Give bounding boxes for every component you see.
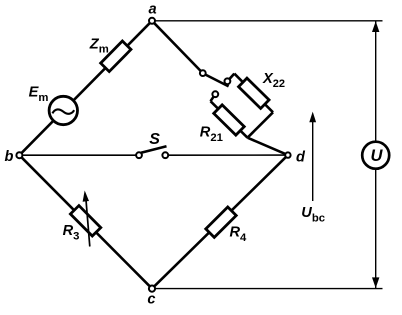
svg-text:U: U: [370, 147, 383, 165]
svg-text:b: b: [4, 149, 13, 165]
svg-text:a: a: [149, 2, 157, 18]
svg-text:d: d: [296, 149, 306, 165]
svg-text:c: c: [147, 292, 155, 308]
svg-text:S: S: [149, 131, 160, 148]
